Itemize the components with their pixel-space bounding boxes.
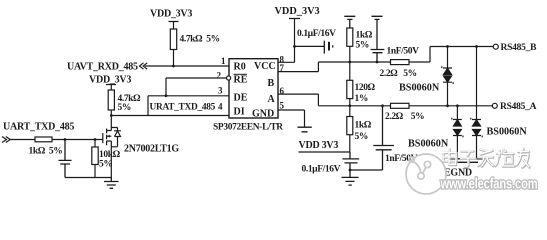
- wire R2 to drain: [110, 110, 112, 131]
- resistor R6 120R body: [349, 62, 351, 80]
- svg-text:RE: RE: [234, 75, 248, 86]
- svg-text:R0: R0: [234, 62, 246, 73]
- node input port: [2, 137, 10, 143]
- svg-text:RS485_A: RS485_A: [500, 102, 537, 112]
- svg-text:1nF/50V: 1nF/50V: [387, 47, 420, 57]
- node Z2-A junction: [456, 104, 459, 107]
- node R1-RXD junction: [172, 65, 175, 68]
- svg-text:VDD_3V3: VDD_3V3: [150, 9, 192, 20]
- node RS485_B port: [493, 44, 498, 49]
- ground top g2: [372, 16, 383, 49]
- ground GND2: [298, 127, 312, 132]
- svg-text:DI: DI: [234, 107, 245, 118]
- diode D1 body: [111, 128, 121, 147]
- svg-text:2.2Ω 5%: 2.2Ω 5%: [385, 112, 424, 122]
- wire pin6 A: [278, 94, 391, 106]
- wire pin8 VCC: [278, 61, 295, 63]
- svg-text:3: 3: [218, 86, 223, 96]
- node RE bubble: [227, 76, 231, 80]
- power VDD_3V3 top-left bar: [169, 22, 179, 30]
- wire RE-DE tie: [165, 78, 167, 96]
- resistor R7 1k body: [349, 106, 351, 117]
- power VDD_3V3 mid bar: [106, 85, 116, 91]
- svg-text:4.7kΩ 5%: 4.7kΩ 5%: [180, 35, 220, 45]
- svg-text:120Ω: 120Ω: [355, 83, 376, 93]
- wire B to port: [409, 47, 493, 63]
- wire bottom rail: [65, 177, 111, 179]
- power VDD 3V3 rail: [299, 151, 351, 153]
- node drain-DI junction: [110, 114, 113, 117]
- diode TVS Z1 BS0060N: [447, 47, 449, 69]
- svg-text:A: A: [268, 94, 276, 105]
- node Z3-B junction: [475, 45, 478, 48]
- svg-text:0.1µF/16V: 0.1µF/16V: [302, 165, 341, 175]
- diode TVS Z2 BS0060N: [456, 106, 458, 120]
- node C5-B junction: [376, 61, 379, 64]
- node Z1-A junction: [446, 104, 449, 107]
- resistor R8 2.2R body: [391, 60, 410, 65]
- wire RE pin2: [166, 77, 226, 79]
- svg-text:1kΩ 5%: 1kΩ 5%: [29, 147, 63, 157]
- svg-text:GND: GND: [252, 109, 274, 120]
- capacitor C1: [59, 140, 72, 178]
- svg-text:10kΩ: 10kΩ: [99, 150, 121, 160]
- node RE-DE tie junction: [165, 94, 168, 97]
- wire A to port: [409, 105, 492, 107]
- node R5-B junction: [348, 61, 351, 64]
- capacitor C4 1nF bottom: [350, 106, 394, 170]
- resistor R2 4.7k body: [108, 90, 114, 110]
- svg-text:1kΩ: 1kΩ: [355, 121, 372, 131]
- svg-text:BS0060N: BS0060N: [487, 127, 528, 138]
- svg-text:VCC: VCC: [254, 61, 276, 72]
- wire DE drop: [147, 96, 149, 116]
- svg-text:0.1µF/16V: 0.1µF/16V: [297, 29, 336, 39]
- transistor Q1 2N7002: [102, 133, 104, 143]
- svg-text:B: B: [268, 78, 275, 89]
- svg-text:BS0060N: BS0060N: [399, 83, 440, 94]
- resistor R3 1k body: [35, 137, 52, 142]
- node RS485_A port: [492, 103, 497, 108]
- svg-text:VDD 3V3: VDD 3V3: [299, 140, 339, 151]
- capacitor C2 0.1uF: [295, 45, 325, 47]
- svg-text:1: 1: [221, 56, 226, 66]
- wire DI pin4 drain net: [111, 115, 229, 117]
- svg-text:4: 4: [218, 102, 223, 112]
- node C4-A junction: [381, 104, 384, 107]
- svg-text:VDD_3V3: VDD_3V3: [89, 75, 131, 86]
- watermark url: [440, 175, 538, 192]
- svg-text:2N7002LT1G: 2N7002LT1G: [124, 144, 179, 155]
- svg-text:www.elecfans.com: www.elecfans.com: [440, 175, 538, 192]
- svg-text:UAVT_RXD_485: UAVT_RXD_485: [67, 62, 138, 73]
- capacitor C3 0.1uF: [342, 152, 359, 177]
- watermark chinese chars: [443, 149, 530, 168]
- node R7-A junction: [348, 104, 351, 107]
- op IC U1 box: [229, 59, 278, 118]
- wire pin7 B: [278, 62, 391, 72]
- svg-text:1%: 1%: [355, 94, 368, 104]
- svg-text:6: 6: [280, 86, 285, 96]
- node RXD arrow: [140, 63, 148, 69]
- svg-text:URAT_TXD_485: URAT_TXD_485: [150, 103, 216, 113]
- svg-text:5%: 5%: [118, 103, 131, 113]
- svg-text:2.2Ω 5%: 2.2Ω 5%: [380, 69, 417, 79]
- svg-text:SP3072EEN-L/TR: SP3072EEN-L/TR: [213, 123, 283, 133]
- svg-text:1kΩ: 1kΩ: [356, 31, 373, 41]
- ground top g1: [344, 16, 355, 28]
- svg-text:5: 5: [280, 101, 285, 111]
- node C2-VCC junction: [293, 45, 296, 48]
- ground GND3: [342, 177, 359, 185]
- power VDD_3V3 top-center: [289, 19, 300, 63]
- resistor R5 1k body: [347, 28, 353, 46]
- svg-text:DE: DE: [234, 93, 248, 104]
- svg-text:BS0060N: BS0060N: [408, 139, 449, 150]
- svg-text:5%: 5%: [356, 41, 369, 51]
- wire pin5 GND: [278, 110, 305, 127]
- wire R1 bottom to RXD net: [173, 50, 175, 67]
- node C3-C4 junction: [349, 169, 352, 172]
- wire RXD net to pin1: [145, 65, 229, 67]
- svg-text:RS485_B: RS485_B: [501, 43, 538, 53]
- capacitor C5 1nF top: [371, 50, 385, 63]
- node C1 junction: [64, 138, 67, 141]
- resistor R1 4.7k body: [170, 29, 176, 50]
- ground GND1: [104, 178, 119, 189]
- watermark logo disc: [406, 154, 446, 194]
- svg-text:5%: 5%: [355, 132, 368, 142]
- svg-text:7: 7: [280, 63, 285, 73]
- svg-text:5%: 5%: [99, 160, 112, 170]
- svg-text:UART_TXD_485: UART_TXD_485: [3, 122, 74, 133]
- ground EGND: [450, 159, 485, 163]
- svg-text:VDD_3V3: VDD_3V3: [275, 6, 320, 17]
- node R4 junction: [94, 138, 97, 141]
- wire gate: [10, 139, 103, 141]
- wire DE pin3: [148, 95, 229, 97]
- diode TVS Z3 BS0060N: [476, 47, 478, 120]
- node Z1-B junction: [446, 45, 449, 48]
- resistor R9 2.2R body: [391, 103, 410, 108]
- resistor R4 10k body: [94, 140, 96, 178]
- svg-text:2: 2: [217, 71, 222, 81]
- wire R5 to B rail: [349, 46, 351, 62]
